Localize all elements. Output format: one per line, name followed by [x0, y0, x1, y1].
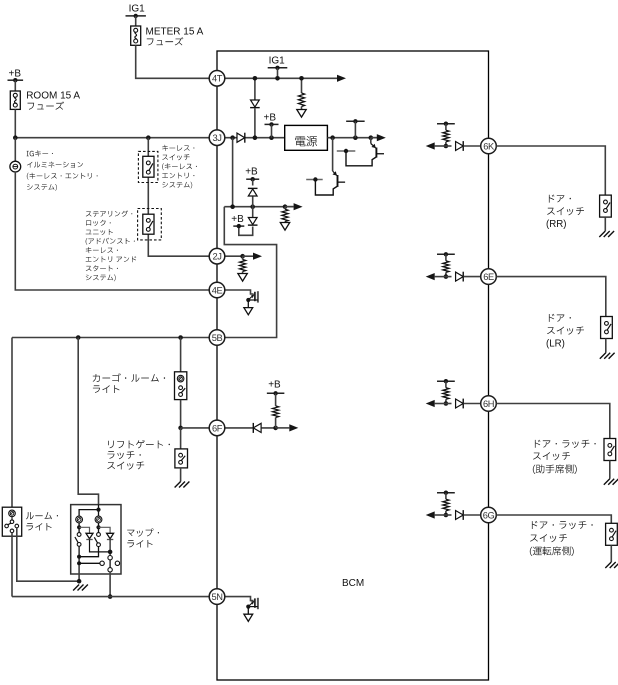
switch door (6E): [601, 317, 613, 339]
chassis ground (map light): [73, 585, 88, 591]
resistor (6E pull-up): [443, 254, 449, 279]
label map light: [127, 528, 159, 547]
switch SW2 steering lock unit: [143, 214, 154, 234]
diode D3 (up): [248, 179, 258, 207]
connector 5B: [209, 330, 225, 346]
wire ROOM fuse to 3J rail: [14, 109, 16, 137]
svg-text:IG1: IG1: [269, 55, 286, 66]
wire +B line: [224, 204, 293, 209]
label 6K line1: [547, 207, 584, 215]
label keyless switch: [162, 145, 197, 189]
resistor R1 (4T pull): [298, 76, 304, 107]
wire +B line to 5B: [224, 207, 276, 338]
wire switch to ground (6H): [609, 461, 611, 479]
diode D1 (4T to 3J rail): [250, 100, 260, 108]
chassis ground (6E switch): [600, 353, 615, 359]
svg-text:5B: 5B: [212, 333, 223, 343]
label cargo room light: [93, 373, 165, 393]
wire power supply output: [327, 135, 377, 140]
wire 3J rail drop to +B line: [232, 138, 234, 207]
wire 6G to door switch: [496, 515, 611, 523]
wire 6H to door switch: [496, 404, 610, 439]
wire node to 6F: [181, 427, 210, 429]
wire map light right pin to 5N rail: [108, 572, 113, 599]
diode (6G): [446, 510, 481, 520]
resistor R4 (6F pull-up): [273, 393, 279, 428]
wire switch to ground (6G): [610, 545, 612, 562]
svg-text:6H: 6H: [483, 399, 494, 409]
arrow +B line: [285, 203, 303, 210]
node supply tap (6E): [437, 252, 455, 256]
connector 6E: [481, 269, 497, 285]
wire liftgate switch to ground: [180, 468, 182, 482]
room light: [2, 507, 21, 536]
svg-text:BCM: BCM: [342, 578, 364, 589]
arrow (6G internal, to left): [426, 511, 446, 518]
connector symbol (IG key illumination): [10, 138, 21, 172]
node +B (room fuse feed): [8, 68, 24, 82]
diode D5 (6F): [253, 423, 261, 433]
wire 5B to room light: [11, 338, 13, 508]
svg-text:+B: +B: [264, 113, 277, 124]
fuse ROOM 15 A: [10, 91, 20, 109]
arrow 2J internal: [243, 253, 262, 260]
steering lock unit (dashed boundary): [138, 209, 162, 240]
arrow (6H internal, to left): [426, 400, 446, 407]
connector 4T: [209, 71, 225, 87]
label 6K line2: [546, 219, 566, 230]
label 6G line2: [530, 546, 574, 556]
map light box: [71, 505, 121, 574]
map light left switch: [75, 523, 81, 566]
keyless switch (dashed boundary): [138, 151, 158, 182]
chassis ground (6G switch): [605, 562, 618, 568]
svg-text:3J: 3J: [212, 133, 221, 143]
map light bottom contacts left: [79, 561, 120, 565]
svg-text:(LR): (LR): [546, 339, 565, 350]
svg-text:4T: 4T: [212, 74, 223, 84]
arrow 6F internal: [276, 424, 299, 431]
diode map light left: [79, 527, 110, 552]
arrow power output: [371, 134, 386, 141]
chassis ground (liftgate switch): [175, 482, 190, 488]
wire 5B to cargo room light: [180, 338, 182, 372]
svg-text:ROOM 15 A: ROOM 15 A: [26, 90, 80, 101]
svg-text:6F: 6F: [212, 423, 223, 433]
resistor (6G pull-up): [443, 493, 449, 518]
power supply unit (dengen): [285, 125, 328, 150]
label BCM: [342, 578, 364, 589]
arrow (6K internal, to left): [426, 142, 446, 149]
diode (6E): [446, 272, 481, 282]
wire 4T row to diode: [253, 76, 258, 100]
resistor (6H pull-up): [443, 381, 449, 406]
wire 4T to internal arrow: [225, 75, 346, 82]
svg-text:6E: 6E: [483, 272, 494, 282]
wire 5B to map light: [78, 338, 98, 505]
resistor (6K pull-up): [443, 124, 449, 149]
label 6G line0: [532, 521, 593, 529]
switch door (6H): [604, 439, 616, 461]
switch liftgate latch: [175, 449, 188, 468]
label steering lock unit: [86, 211, 137, 282]
node supply tap above output: [346, 119, 365, 138]
connector 6G: [481, 507, 497, 523]
connector 4E: [209, 282, 225, 298]
node IG1 (top feed): [126, 4, 146, 19]
wire METER fuse to 4T: [136, 45, 210, 78]
wire room light pin to map light ground: [17, 528, 79, 581]
wire 3J rail to keyless switch chain: [148, 138, 209, 257]
wire 6E to door switch: [496, 277, 606, 317]
node +B tap (power supply input): [264, 113, 279, 138]
label 6G line1: [530, 534, 567, 542]
ground (open triangle) below R2: [280, 222, 289, 231]
svg-text:6K: 6K: [483, 141, 495, 151]
switch door (6K): [600, 195, 612, 217]
connector 5N: [209, 589, 225, 605]
node +B (upper): [245, 167, 259, 182]
label 6E line0: [549, 314, 571, 322]
wire room light to 5N rail: [11, 533, 13, 597]
diode map light right: [99, 527, 114, 555]
wire 5N rail: [12, 596, 209, 598]
ground (open triangle) below R1: [297, 107, 306, 118]
ground (open triangle) below R3: [238, 272, 247, 282]
wire diode D1 to 3J rail: [254, 108, 256, 137]
svg-text:+B: +B: [268, 380, 281, 391]
wire 5B rail: [12, 335, 209, 340]
label 6K line0: [549, 195, 571, 203]
label IG key illumination: [27, 150, 98, 191]
wire node to liftgate latch switch: [180, 428, 182, 449]
label liftgate latch switch: [107, 440, 170, 470]
node IG1 internal tap: [268, 55, 288, 80]
connector 6K: [481, 138, 497, 154]
svg-text:4E: 4E: [212, 285, 223, 295]
label 6H line0: [535, 440, 596, 448]
resistor R3 (2J): [240, 256, 246, 271]
wire 3J rail (left): [13, 135, 209, 140]
wire IG key illum to 4E: [15, 172, 209, 290]
wire 3J to power supply: [225, 135, 285, 140]
label METER 15 A fuse: [146, 26, 204, 45]
svg-text:2J: 2J: [212, 252, 221, 262]
wire cargo light to 6F node: [178, 400, 183, 431]
svg-text:5N: 5N: [211, 592, 222, 602]
node supply tap (6H): [437, 379, 455, 383]
connector 3J: [209, 130, 225, 146]
resistor R2 (+B line): [282, 207, 288, 222]
map light internal feed: [79, 505, 101, 516]
connector 6H: [481, 396, 497, 412]
wire 6F internal: [225, 427, 253, 429]
arrow (6E internal, to left): [426, 273, 446, 280]
node supply tap (6G): [437, 491, 455, 495]
cargo room light: [175, 372, 187, 400]
transistor Q1: [337, 138, 384, 166]
svg-text:+B: +B: [231, 214, 244, 225]
diode (6K): [446, 141, 481, 151]
wire map light left pin to ground: [77, 565, 82, 584]
transistor Q4 (5N output): [225, 597, 258, 622]
connector 2J: [209, 248, 225, 264]
chassis ground (6H switch): [604, 479, 618, 485]
svg-text:IG1: IG1: [129, 4, 146, 15]
svg-text:6G: 6G: [483, 510, 495, 520]
label 6H line2: [533, 464, 577, 474]
map light bottom contacts right: [108, 556, 112, 573]
wire 2J internal: [225, 254, 245, 259]
diode D4 (down): [239, 207, 258, 236]
wire diode to +B node: [262, 426, 279, 431]
transistor Q2: [306, 138, 345, 195]
svg-text:(RR): (RR): [546, 219, 566, 230]
label room light: [26, 512, 58, 531]
wire +B bar to ROOM fuse: [14, 80, 16, 91]
node +B (6F pull-up): [267, 380, 285, 396]
node supply tap (6K): [437, 122, 455, 126]
map light right switch: [79, 523, 101, 557]
label ROOM 15 A fuse: [26, 90, 80, 109]
diode D2 (3J series): [237, 133, 245, 143]
wire switch to ground (6E): [605, 339, 607, 353]
BCM module box outline: [217, 51, 489, 680]
wire IG1 bar to METER fuse: [135, 16, 137, 26]
diode (6H): [446, 399, 481, 409]
lamp map light left: [76, 516, 83, 523]
fuse METER 15 A: [131, 26, 141, 45]
chassis ground (6K switch): [599, 231, 614, 237]
label 6E line2: [546, 339, 565, 350]
wire 6K to door switch: [496, 146, 605, 195]
switch door (6G): [606, 523, 618, 545]
svg-text:+B: +B: [9, 68, 22, 79]
lamp map light right: [95, 516, 102, 523]
label 6E line1: [547, 327, 584, 335]
svg-text:+B: +B: [245, 167, 258, 178]
connector 6F: [209, 420, 225, 436]
label 6H line1: [533, 452, 570, 460]
wire switch to ground (6K): [604, 217, 606, 231]
svg-text:METER 15 A: METER 15 A: [146, 26, 204, 37]
transistor Q3 (4E output): [225, 290, 258, 315]
switch SW1 keyless: [143, 156, 154, 177]
node +B (lower): [231, 214, 244, 229]
